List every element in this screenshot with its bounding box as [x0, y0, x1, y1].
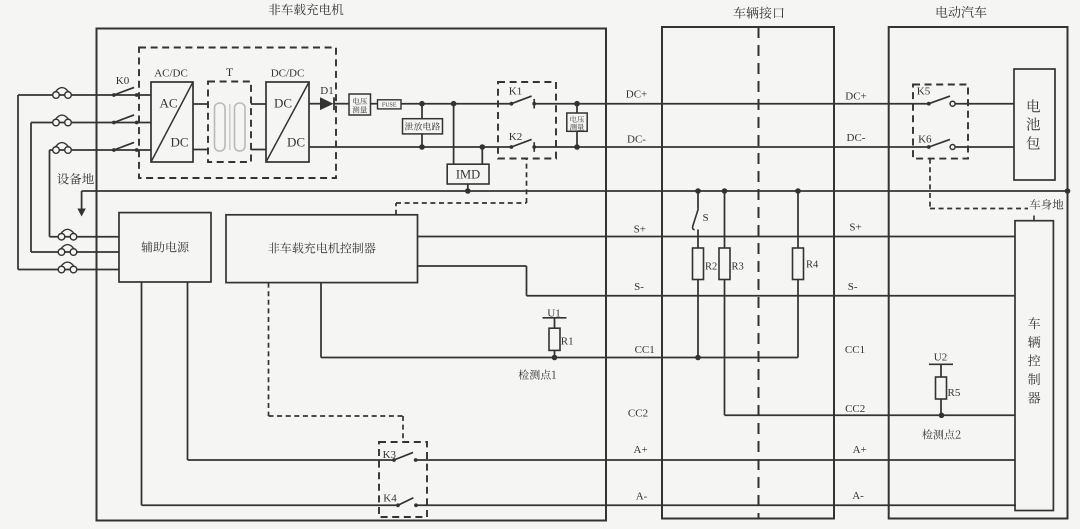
wire DC/DC output to D1 anode [309, 103, 320, 105]
dashed control line controller to K1K2 vertical [395, 203, 397, 215]
contactor K5 [927, 102, 931, 106]
switch K0 pole 3 [112, 148, 116, 152]
svg-text:S: S [703, 212, 709, 224]
label 电压 in measure box 2 [571, 116, 585, 123]
voltage measurement box 2 stem from DC+ [576, 104, 578, 113]
junction dot DC+ IMD tap [451, 101, 457, 107]
label 电 of battery [1028, 99, 1040, 112]
junction dot DC+ bleeder tap [419, 101, 425, 107]
aux output stub to A+ wire [187, 282, 189, 460]
label 辆 of vehicle controller [1028, 336, 1040, 348]
svg-text:R1: R1 [561, 335, 574, 347]
body ground tick on controller [1033, 216, 1035, 222]
dashed control line rise to K1K2 box [526, 159, 528, 204]
dashed control line controller to K3K4 drop [268, 283, 270, 416]
svg-text:CC2: CC2 [628, 408, 648, 420]
wire A- K4 to vehicle controller [416, 504, 1016, 506]
wire R3 down to CC2 [724, 280, 726, 416]
svg-text:DC: DC [274, 96, 292, 111]
wire K6 to battery [955, 146, 1014, 148]
junction dot PE at R4 [795, 188, 801, 194]
wire aux feed 2 horizontal [31, 251, 119, 253]
contactor K2 [510, 145, 514, 149]
wire R5 to CC2 [940, 399, 942, 415]
wire S+ bus [418, 236, 1016, 238]
wire DC+ bus K1 to K5 [534, 103, 929, 105]
bleeder circuit stem from DC+ [421, 104, 423, 119]
bleeder circuit stem to DC- [421, 134, 423, 147]
DC/DC converter U-block [266, 82, 309, 162]
wire DC+ fuse to contactor K1 [401, 103, 511, 105]
wire R2 to CC1 [697, 280, 699, 358]
connector pair on aux feed 3 [58, 266, 65, 273]
wire S- bus [527, 295, 1016, 297]
svg-text:K0: K0 [116, 75, 130, 87]
wire A+ K3 to vehicle controller [416, 459, 1015, 461]
dashed chassis line from K5K6 box [929, 159, 931, 209]
voltage measurement box 2 (电压测量) [567, 113, 587, 131]
contactor group K3 K4 dashed box [379, 442, 427, 517]
svg-text:D1: D1 [320, 85, 333, 97]
wire aux feed 3 horizontal [18, 269, 119, 271]
junction dot CC1 at R2 [695, 355, 701, 361]
contactor K1 [510, 102, 514, 106]
resistor R3 [719, 248, 730, 280]
contactor group K1 K2 dashed box [498, 82, 556, 159]
svg-text:DC/DC: DC/DC [271, 68, 305, 80]
resistor R1 [549, 328, 560, 350]
diode D1 [320, 97, 334, 110]
svg-text:DC-: DC- [627, 133, 646, 145]
converter group dashed box [139, 48, 336, 179]
label 设备地 (equipment ground) [57, 173, 94, 185]
label 车身地 (vehicle body ground) [1030, 199, 1064, 210]
contactor K3 [392, 458, 396, 462]
svg-text:AC/DC: AC/DC [154, 68, 188, 80]
svg-text:DC-: DC- [847, 132, 866, 144]
label 器 of vehicle controller [1028, 392, 1040, 404]
junction dot CC2 at R5 [939, 413, 945, 419]
label 车 of vehicle controller [1028, 317, 1040, 329]
wire DC- bus K2 to K6 [534, 146, 929, 148]
wire aux feed 1 horizontal [50, 236, 120, 238]
junction dot measure2 on DC+ [574, 101, 580, 107]
IMD box [447, 164, 489, 184]
svg-text:A-: A- [852, 490, 864, 502]
svg-text:R4: R4 [806, 260, 819, 271]
voltage measurement box 2 stem to DC- [576, 131, 578, 147]
label 辅助电源 (auxiliary power) [141, 241, 188, 252]
wire R4 down to CC1 end [797, 280, 799, 358]
wire U1 bar to R1 [554, 318, 556, 328]
wire CC1 bus [321, 357, 798, 359]
wire K5 to battery [955, 103, 1014, 105]
equipment ground drop wire [81, 191, 83, 210]
wire PE bus (equipment ground to vehicle) [82, 190, 1068, 192]
label 泄放电路 (bleeder circuit) [405, 122, 440, 130]
wire AC phase 2 left drop to aux feed [30, 123, 32, 253]
transformer T winding right [235, 103, 246, 151]
wire PE to switch S [697, 191, 699, 209]
svg-text:FUSE: FUSE [382, 103, 397, 109]
transformer T winding left [215, 103, 226, 151]
auxiliary power box 辅助电源 [119, 213, 211, 282]
resistor R5 [936, 377, 947, 399]
wire AC/DC to T lower link [193, 149, 208, 151]
label 包 of battery [1027, 136, 1040, 149]
junction dot PE at R3 [722, 188, 728, 194]
vehicle controller box 车辆控制器 [1015, 221, 1053, 511]
switch K0 pole 1 [112, 93, 116, 97]
svg-text:U2: U2 [934, 351, 947, 363]
charger controller box 非车载充电机控制器 [226, 215, 418, 283]
wire U2 bar to R5 [940, 364, 942, 377]
svg-text:K2: K2 [509, 131, 522, 143]
vehicle interface enclosure box [662, 27, 834, 519]
contactor K6 [927, 145, 931, 149]
dashed control line controller to K3K4 horizontal [269, 415, 404, 417]
svg-text:DC: DC [170, 135, 188, 150]
connector pair on aux feed 1 [58, 233, 65, 240]
wire AC phase 1 left drop to aux feed [17, 95, 19, 270]
transformer T core line [229, 104, 231, 150]
junction dot PE at vehicle body [1065, 188, 1071, 194]
wire D1 cathode to voltage-measure box [334, 103, 349, 105]
svg-text:DC+: DC+ [845, 90, 866, 102]
label 测量 in measure box 1 [353, 106, 368, 113]
AC/DC converter U-block [151, 82, 193, 162]
svg-text:CC1: CC1 [845, 344, 865, 356]
title 电动汽车 (electric vehicle) [937, 6, 987, 18]
vehicle interface dashed divider line [758, 27, 760, 519]
svg-text:T: T [226, 65, 234, 79]
wire AC phase 1 horizontal [18, 94, 151, 96]
wire DC- from DC/DC to contactor K2 [309, 146, 511, 148]
title 非车载充电机 (off-board charger) [269, 4, 344, 16]
svg-text:R5: R5 [948, 387, 961, 399]
svg-text:K4: K4 [383, 493, 397, 505]
IMD right pin from DC- [481, 147, 483, 164]
fuse FUSE box [378, 100, 402, 109]
junction dot CC1 at R1 [552, 355, 558, 361]
connector pair on AC phase 3 [53, 147, 60, 154]
off-board charger enclosure box [97, 29, 607, 521]
svg-text:CC1: CC1 [635, 344, 655, 356]
svg-text:K5: K5 [917, 86, 931, 98]
electric vehicle enclosure box [889, 27, 1068, 519]
measurement point U2 bar [929, 363, 953, 365]
contactor group K5 K6 dashed box [913, 85, 968, 159]
wire AC phase 3 horizontal [50, 149, 152, 151]
voltage measurement box 1 (电压测量) [349, 94, 371, 115]
svg-text:DC+: DC+ [626, 89, 647, 101]
switch S blade [693, 209, 699, 230]
connector pair on AC phase 1 [53, 92, 60, 99]
junction dot IMD on PE [465, 188, 471, 194]
wire PE to R3 [724, 191, 726, 248]
IMD ground pin [467, 184, 469, 191]
wire PE to R4 [797, 191, 799, 248]
svg-text:A+: A+ [853, 444, 867, 456]
junction dot DC- bleeder tap [419, 144, 425, 150]
bleeder circuit box 泄放电路 [403, 119, 443, 134]
svg-text:AC: AC [159, 96, 177, 111]
DC/DC converter diagonal [266, 82, 309, 162]
wire A- from aux to K4 [142, 504, 399, 506]
label 控 of vehicle controller [1028, 355, 1040, 367]
svg-text:IMD: IMD [456, 168, 480, 182]
label 检测点1 (detection point 1) [519, 370, 556, 380]
svg-text:S+: S+ [634, 223, 646, 235]
svg-text:A+: A+ [634, 444, 648, 456]
svg-text:CC2: CC2 [845, 403, 865, 415]
wire CC2 bus [725, 414, 1016, 416]
svg-text:K1: K1 [509, 85, 522, 97]
equipment ground arrow symbol [77, 209, 85, 217]
title 车辆接口 (vehicle interface) [734, 7, 784, 19]
wire AC phase 2 horizontal [31, 122, 151, 124]
wire T to DC/DC lower link [251, 149, 266, 151]
aux output stub to A- wire [141, 282, 143, 505]
resistor R4 [793, 248, 804, 280]
label 检测点2 (detection point 2) [922, 429, 960, 439]
resistor R2 [693, 248, 704, 280]
connector pair on AC phase 2 [53, 119, 60, 126]
junction dot PE at S switch [695, 188, 701, 194]
transformer T dashed box [208, 82, 251, 163]
wire S- from controller [418, 265, 527, 267]
dashed chassis line to body ground [930, 208, 1028, 210]
label 电压 in measure box 1 [353, 98, 367, 105]
wire R1 to CC1 [554, 350, 556, 357]
AC/DC converter diagonal [151, 82, 193, 162]
label 制 of vehicle controller [1028, 373, 1040, 385]
dashed control line controller to K1K2 horizontal [396, 202, 527, 204]
switch K0 pole 2 [112, 121, 116, 125]
wire A+ from aux to K3 [188, 459, 395, 461]
svg-text:S-: S- [634, 281, 644, 293]
battery pack box 电池包 [1014, 69, 1055, 180]
svg-text:DC: DC [287, 135, 305, 150]
wire S to R2 [697, 230, 699, 249]
svg-text:R2: R2 [705, 261, 717, 272]
IMD left pin from DC+ [453, 104, 455, 165]
wire S- drop [526, 266, 528, 296]
connector pair on aux feed 2 [58, 249, 65, 256]
wire AC/DC to T upper link [193, 103, 208, 105]
wire measure box to fuse [371, 103, 378, 105]
measurement point U1 bar [543, 317, 567, 319]
label 池 of battery [1027, 118, 1041, 131]
wire CC1 stub from controller [320, 283, 322, 358]
junction dot DC- IMD tap [480, 144, 486, 150]
svg-text:S-: S- [848, 281, 858, 293]
wire AC phase 3 left drop to aux feed [49, 150, 51, 237]
svg-text:S+: S+ [849, 222, 861, 234]
label 非车载充电机控制器 (charger controller) [268, 242, 375, 253]
svg-text:K3: K3 [383, 449, 397, 461]
label 测量 in measure box 2 [570, 124, 584, 131]
junction dot measure2 on DC- [574, 144, 580, 150]
contactor K4 [396, 503, 400, 507]
wire T to DC/DC upper link [251, 103, 266, 105]
svg-text:K6: K6 [918, 134, 932, 146]
svg-text:R3: R3 [732, 261, 744, 272]
svg-text:A-: A- [636, 491, 648, 503]
dashed control line down to K3K4 box [402, 416, 404, 442]
